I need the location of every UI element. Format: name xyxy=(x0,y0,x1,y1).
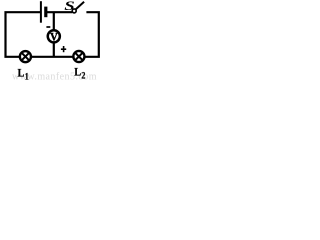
svg-text:V: V xyxy=(50,31,58,44)
svg-text:S: S xyxy=(64,0,74,13)
